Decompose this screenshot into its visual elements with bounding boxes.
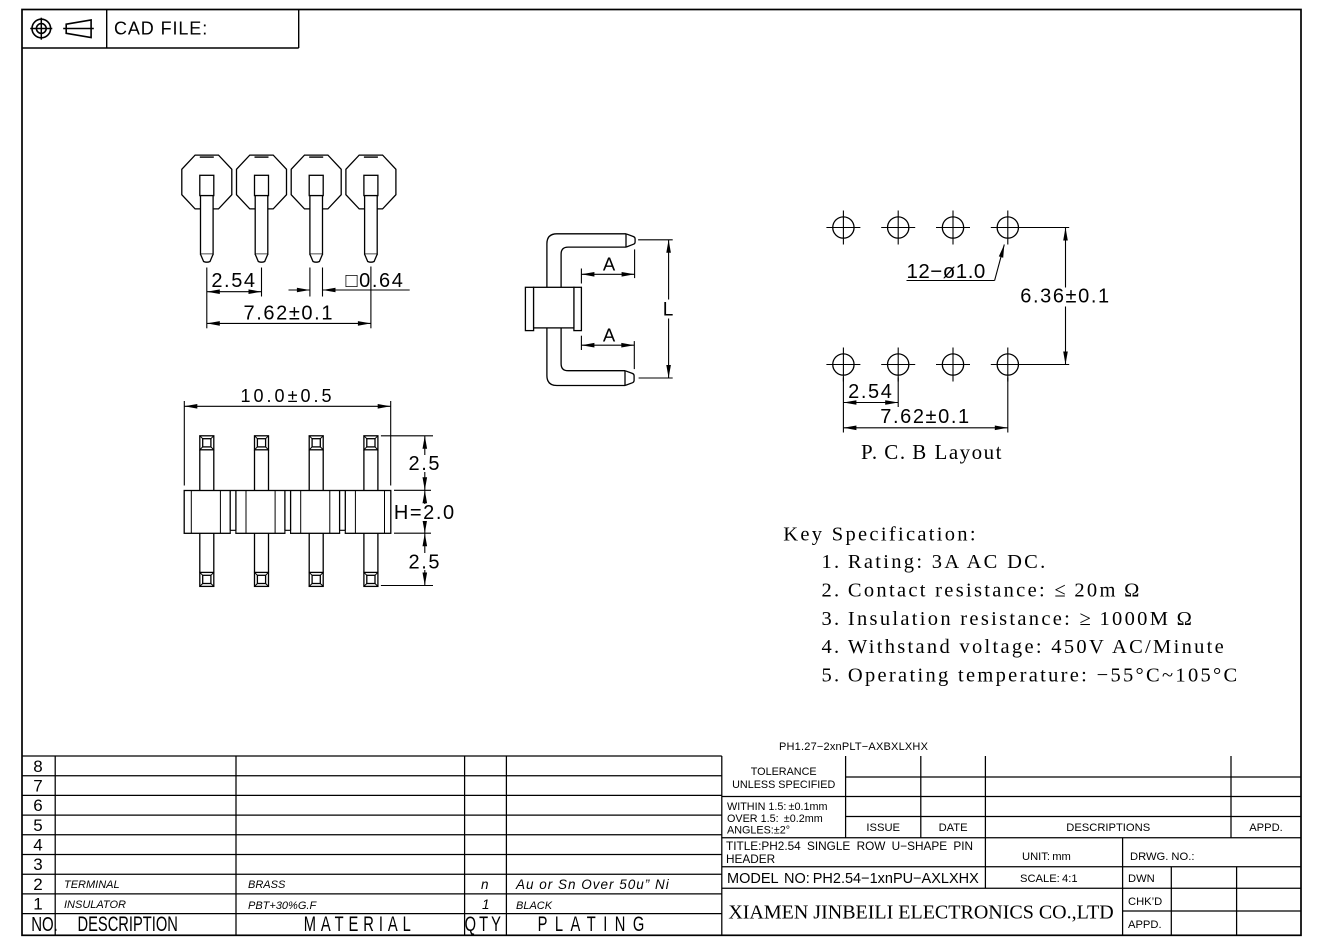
svg-text:n: n bbox=[481, 877, 489, 892]
svg-text:APPD.: APPD. bbox=[1128, 919, 1162, 931]
segment joint 3 with bottom notch bbox=[340, 491, 346, 535]
dimension 6.36±0.1 bbox=[1015, 228, 1117, 365]
U-shaped pin inner contour bbox=[561, 247, 626, 371]
svg-text:OVER 1.5: ±0.2mm: OVER 1.5: ±0.2mm bbox=[727, 813, 823, 825]
segment joint 2 with bottom notch bbox=[285, 491, 291, 535]
svg-text:2.54: 2.54 bbox=[848, 381, 893, 403]
svg-text:QTY: QTY bbox=[465, 912, 504, 935]
svg-text:DATE: DATE bbox=[939, 822, 968, 834]
housing segment edge lines bbox=[191, 491, 384, 534]
P.C.B layout view bbox=[826, 211, 1117, 465]
hole row 1 pad 2 bbox=[881, 211, 915, 245]
title header box with projection symbols and CAD FILE label bbox=[22, 10, 299, 49]
top view pin 5 (bottom row) bbox=[200, 533, 214, 586]
svg-text:5: 5 bbox=[33, 816, 42, 835]
housing octagon 1 bbox=[182, 155, 232, 209]
hole row 1 pad 3 bbox=[936, 211, 970, 245]
svg-text:12−ø1.0: 12−ø1.0 bbox=[907, 260, 986, 283]
svg-text:DESCRIPTIONS: DESCRIPTIONS bbox=[1066, 822, 1150, 834]
svg-text:2.5: 2.5 bbox=[408, 552, 441, 574]
top view pin 7 (bottom row) bbox=[309, 533, 323, 586]
svg-text:3. Insulation resistance: ≥ 10: 3. Insulation resistance: ≥ 1000M Ω bbox=[822, 608, 1195, 630]
svg-text:WITHIN 1.5: ±0.1mm: WITHIN 1.5: ±0.1mm bbox=[727, 801, 827, 813]
svg-text:MODEL NO: PH2.54−1xnPU−AXLXHX: MODEL NO: PH2.54−1xnPU−AXLXHX bbox=[727, 871, 979, 887]
dimension square 0.64 (front view) bbox=[289, 268, 410, 297]
top view pin 4 bbox=[364, 436, 378, 491]
svg-text:7.62±0.1: 7.62±0.1 bbox=[880, 406, 971, 428]
hole row 2 pad 2 bbox=[881, 348, 915, 382]
U-shape pin side view bbox=[525, 234, 677, 386]
hole row 1 pad 1 bbox=[826, 211, 860, 245]
right side chained dimensions 2.5 / H=2.0 / 2.5 bbox=[381, 436, 456, 586]
svg-text:TITLE:PH2.54 SINGLE ROW U−SHAP: TITLE:PH2.54 SINGLE ROW U−SHAPE PIN bbox=[726, 839, 973, 853]
svg-text:8: 8 bbox=[33, 757, 42, 776]
unit / drwg bbox=[1022, 851, 1194, 863]
dimension 7.62±0.1 (pcb) bbox=[843, 378, 1007, 433]
svg-text:10.0±0.5: 10.0±0.5 bbox=[241, 386, 335, 406]
svg-text:ISSUE: ISSUE bbox=[866, 822, 900, 834]
left table header row bbox=[78, 912, 652, 935]
drawing number above title block bbox=[779, 741, 929, 753]
svg-text:INSULATOR: INSULATOR bbox=[64, 899, 126, 911]
left parts table grid bbox=[22, 756, 722, 935]
hole row 2 pad 1 bbox=[826, 348, 860, 382]
svg-text:A: A bbox=[603, 254, 616, 275]
right title block grid bbox=[722, 756, 1301, 935]
housing octagon 2 bbox=[237, 155, 287, 209]
housing octagon 3 bbox=[291, 155, 341, 209]
svg-text:APPD.: APPD. bbox=[1249, 822, 1283, 834]
svg-text:Key Specification:: Key Specification: bbox=[783, 524, 978, 546]
parts rows text bbox=[64, 877, 670, 912]
segment joint 1 with bottom notch bbox=[230, 491, 236, 535]
model row bbox=[727, 871, 1162, 931]
svg-text:2.54: 2.54 bbox=[211, 270, 256, 292]
left table row numbers bbox=[31, 757, 58, 935]
svg-text:2: 2 bbox=[33, 875, 42, 894]
svg-text:2. Contact resistance: ≤ 20m Ω: 2. Contact resistance: ≤ 20m Ω bbox=[822, 580, 1142, 602]
svg-text:4. Withstand voltage: 450V AC/: 4. Withstand voltage: 450V AC/Minute bbox=[822, 636, 1227, 658]
svg-text:DWN: DWN bbox=[1128, 873, 1155, 885]
title cell bbox=[726, 839, 973, 866]
svg-text:1: 1 bbox=[482, 897, 490, 912]
pin 1 bbox=[200, 175, 214, 262]
svg-text:6: 6 bbox=[33, 796, 42, 815]
issue/date/descriptions/appd header bbox=[866, 822, 1282, 834]
dimension L bbox=[638, 240, 677, 378]
projection symbol: cone frustum side view bbox=[63, 20, 94, 38]
svg-text:4: 4 bbox=[33, 836, 42, 855]
key specification notes bbox=[783, 524, 1239, 687]
dimension A (bottom arm) bbox=[581, 325, 634, 370]
top view pin 2 bbox=[255, 436, 269, 491]
svg-text:CHK’D: CHK’D bbox=[1128, 896, 1162, 908]
top view pin 1 bbox=[200, 436, 214, 491]
top view pin 6 (bottom row) bbox=[255, 533, 269, 586]
svg-text:7: 7 bbox=[33, 777, 42, 796]
svg-text:H=2.0: H=2.0 bbox=[394, 502, 456, 524]
hole row 1 pad 4 bbox=[991, 211, 1025, 245]
svg-text:HEADER: HEADER bbox=[726, 852, 775, 866]
svg-text:BLACK: BLACK bbox=[516, 900, 553, 912]
svg-text:UNIT: mm: UNIT: mm bbox=[1022, 851, 1071, 863]
projection symbol: target circle bbox=[30, 18, 52, 40]
svg-text:TOLERANCE: TOLERANCE bbox=[751, 766, 817, 778]
bottom arm pin tip bbox=[625, 371, 634, 386]
hole row 2 pad 4 bbox=[991, 348, 1025, 382]
top arm pin tip bbox=[626, 234, 635, 247]
svg-text:DESCRIPTION: DESCRIPTION bbox=[78, 912, 178, 935]
svg-text:UNLESS SPECIFIED: UNLESS SPECIFIED bbox=[732, 779, 835, 791]
U-shaped pin outer contour bbox=[547, 234, 626, 386]
svg-text:1: 1 bbox=[33, 895, 42, 914]
parts list and title block table bbox=[22, 741, 1301, 935]
svg-text:A: A bbox=[603, 325, 616, 346]
svg-text:2.5: 2.5 bbox=[408, 453, 441, 475]
svg-text:BRASS: BRASS bbox=[248, 879, 286, 891]
svg-text:PLATING: PLATING bbox=[538, 912, 652, 935]
hole callout 12-ø1.0 leader bbox=[907, 245, 1005, 284]
svg-text:3: 3 bbox=[33, 855, 42, 874]
dimension 10.0±0.5 bbox=[184, 386, 390, 486]
svg-text:SCALE: 4:1: SCALE: 4:1 bbox=[1020, 873, 1078, 885]
svg-text:DRWG. NO.:: DRWG. NO.: bbox=[1130, 851, 1194, 863]
svg-text:P. C. B Layout: P. C. B Layout bbox=[861, 440, 1003, 464]
company name bbox=[728, 902, 1113, 924]
svg-text:7.62±0.1: 7.62±0.1 bbox=[244, 302, 335, 324]
housing octagon 4 bbox=[346, 155, 396, 209]
pin 4 bbox=[364, 175, 378, 262]
pin 3 bbox=[309, 175, 323, 262]
svg-text:MATERIAL: MATERIAL bbox=[304, 912, 416, 935]
front view of pin header bbox=[182, 155, 410, 328]
dimension 2.54 (pcb) bbox=[843, 378, 898, 408]
svg-text:Au or Sn Over 50u” Ni: Au or Sn Over 50u” Ni bbox=[515, 877, 670, 892]
top view pin 8 (bottom row) bbox=[364, 533, 378, 586]
svg-text:PH1.27−2xnPLT−AXBXLXHX: PH1.27−2xnPLT−AXBXLXHX bbox=[779, 741, 929, 753]
svg-text:ANGLES:±2°: ANGLES:±2° bbox=[727, 825, 790, 837]
dimension A (top arm) bbox=[581, 249, 634, 283]
pin far-end edges at octagon tops bbox=[200, 156, 378, 158]
svg-text:CAD FILE:: CAD FILE: bbox=[114, 19, 208, 39]
svg-text:L: L bbox=[663, 300, 674, 321]
dimension 7.62±0.1 (front view) bbox=[207, 267, 371, 329]
svg-text:5. Operating temperature: −55°: 5. Operating temperature: −55°C~105°C bbox=[822, 664, 1240, 686]
housing body (top view) bbox=[184, 491, 391, 534]
svg-text:NO.: NO. bbox=[31, 913, 58, 936]
svg-text:TERMINAL: TERMINAL bbox=[64, 879, 120, 891]
svg-text:□0.64: □0.64 bbox=[346, 270, 405, 292]
svg-text:XIAMEN JINBEILI ELECTRONICS CO: XIAMEN JINBEILI ELECTRONICS CO.,LTD bbox=[728, 902, 1113, 924]
insulator body side view bbox=[525, 287, 581, 330]
top view pin 3 bbox=[309, 436, 323, 491]
svg-text:6.36±0.1: 6.36±0.1 bbox=[1020, 286, 1111, 308]
svg-text:PBT+30%G.F: PBT+30%G.F bbox=[248, 900, 317, 912]
svg-text:1. Rating: 3A AC DC.: 1. Rating: 3A AC DC. bbox=[822, 551, 1048, 573]
tolerance values cell bbox=[727, 801, 827, 837]
top view of pin header bbox=[184, 386, 456, 586]
tolerance cell bbox=[732, 766, 835, 791]
dimension 2.54 (front view) bbox=[207, 268, 262, 297]
pin 2 bbox=[255, 175, 269, 262]
hole row 2 pad 3 bbox=[936, 348, 970, 382]
